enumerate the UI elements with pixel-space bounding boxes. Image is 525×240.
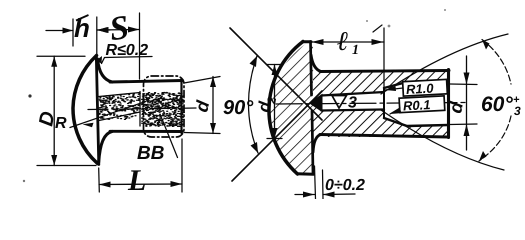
zone BB rounded rect dash-dot	[144, 76, 185, 137]
bore hidden bottom line	[99, 112, 140, 121]
shank end line	[180, 79, 182, 133]
dim d top extension (between views)	[184, 77, 220, 84]
dim d right line with arrows	[466, 56, 468, 150]
surface finish triangle	[332, 96, 347, 109]
dim d right ticks	[450, 84, 477, 125]
leader shelf for R<=0.2	[102, 57, 153, 64]
l1 right extension line	[383, 28, 385, 88]
label R	[55, 117, 66, 128]
dim 0-0.2 line outside arrows	[295, 193, 355, 196]
head top tip connector	[303, 40, 312, 43]
head bottom tip connector	[297, 172, 314, 175]
dim S right extension line	[139, 13, 141, 79]
bore end vertical line	[383, 88, 385, 118]
paper specks	[23, 9, 446, 182]
bore hidden top line	[99, 93, 140, 97]
centerline axis right view	[276, 103, 465, 105]
90deg cone line lower	[232, 91, 322, 181]
head outline arc (right view)	[269, 42, 303, 175]
fillet bottom head to shank	[99, 132, 112, 163]
label S	[112, 16, 127, 40]
shank end face line	[447, 70, 450, 138]
label L	[128, 170, 145, 190]
90deg cone line upper	[230, 28, 322, 120]
label 60 degrees	[482, 96, 513, 111]
label R<=0.2	[106, 44, 148, 55]
slash on h ascender	[76, 15, 89, 21]
60deg dim arc dashed lower	[479, 116, 511, 161]
head apex extension line up	[96, 17, 98, 55]
dim 0-0.2 extension lines	[315, 166, 324, 199]
dim L right extension	[181, 139, 183, 192]
shank top edge right view	[320, 71, 449, 72]
dim h left extension line	[72, 19, 74, 46]
dim D top extension	[37, 55, 85, 57]
60deg cone extension line upper	[381, 34, 508, 94]
label d2 rotated	[257, 95, 276, 113]
R0.1 box	[399, 96, 445, 113]
head face line (left view)	[96, 56, 99, 165]
label l1	[337, 32, 357, 54]
leader R to head arc	[70, 102, 144, 128]
label h	[74, 18, 88, 37]
funnel bottom edge	[384, 118, 448, 126]
label d right rotated	[450, 101, 463, 113]
leader to BB label	[160, 114, 178, 158]
90deg dim arc	[248, 56, 258, 153]
dim d line with arrows	[212, 77, 214, 134]
shank bottom edge right view	[320, 135, 448, 138]
label R0.1	[403, 100, 429, 110]
label plus tolerance	[514, 97, 520, 103]
label 90 degrees	[223, 100, 253, 114]
dim d2 line with arrows	[274, 65, 276, 139]
bore top edge	[322, 92, 385, 96]
shank bottom edge	[110, 130, 182, 133]
dim h line outside arrows	[46, 29, 110, 32]
dim l1 line with arrows	[311, 41, 384, 43]
label BB	[137, 146, 163, 159]
dim D bottom extension	[37, 165, 96, 167]
dim L left extension	[98, 168, 101, 192]
head face upper segment	[311, 42, 312, 96]
hatch fill shank region	[313, 70, 449, 137]
leader from R0.1 box	[390, 108, 400, 114]
dim L line with arrows	[99, 183, 182, 186]
dim d bottom extension	[184, 133, 220, 134]
label tolerance 3	[514, 107, 520, 115]
head face lower segment	[312, 111, 313, 174]
hatch fill head region	[269, 41, 313, 174]
countersink cone 90deg	[311, 96, 322, 111]
white bore funnel and end hole	[311, 82, 448, 126]
dim D line with arrows	[53, 56, 55, 165]
label D rotated	[39, 112, 53, 127]
fillet top right view	[311, 55, 321, 72]
dim d2 ticks	[267, 65, 282, 139]
60deg cone extension line lower	[381, 110, 504, 170]
bore hidden end line	[139, 92, 141, 127]
stray tick near l1	[373, 25, 382, 32]
stipple texture dots	[99, 93, 184, 127]
fillet top head to shank	[98, 59, 113, 82]
centerline axis left view	[88, 108, 196, 110]
arrows of 60deg arc	[479, 40, 490, 162]
bore bottom edge	[322, 110, 385, 111]
label 0 to 0.2	[326, 179, 365, 190]
shank top edge	[110, 81, 183, 83]
fillet bottom right view	[313, 135, 321, 153]
R1.0 box	[403, 79, 448, 96]
funnel top edge	[384, 82, 448, 88]
60deg dim arc dashed upper	[482, 40, 511, 85]
label d rotated between views	[196, 99, 209, 112]
label finish grade 3	[348, 96, 357, 107]
leader from R1.0 box	[385, 88, 403, 90]
head outline arc (left view)	[73, 56, 98, 164]
arrows of 90deg arc	[250, 56, 259, 153]
label R1.0	[407, 84, 434, 94]
dim S line inside arrows	[97, 29, 140, 32]
